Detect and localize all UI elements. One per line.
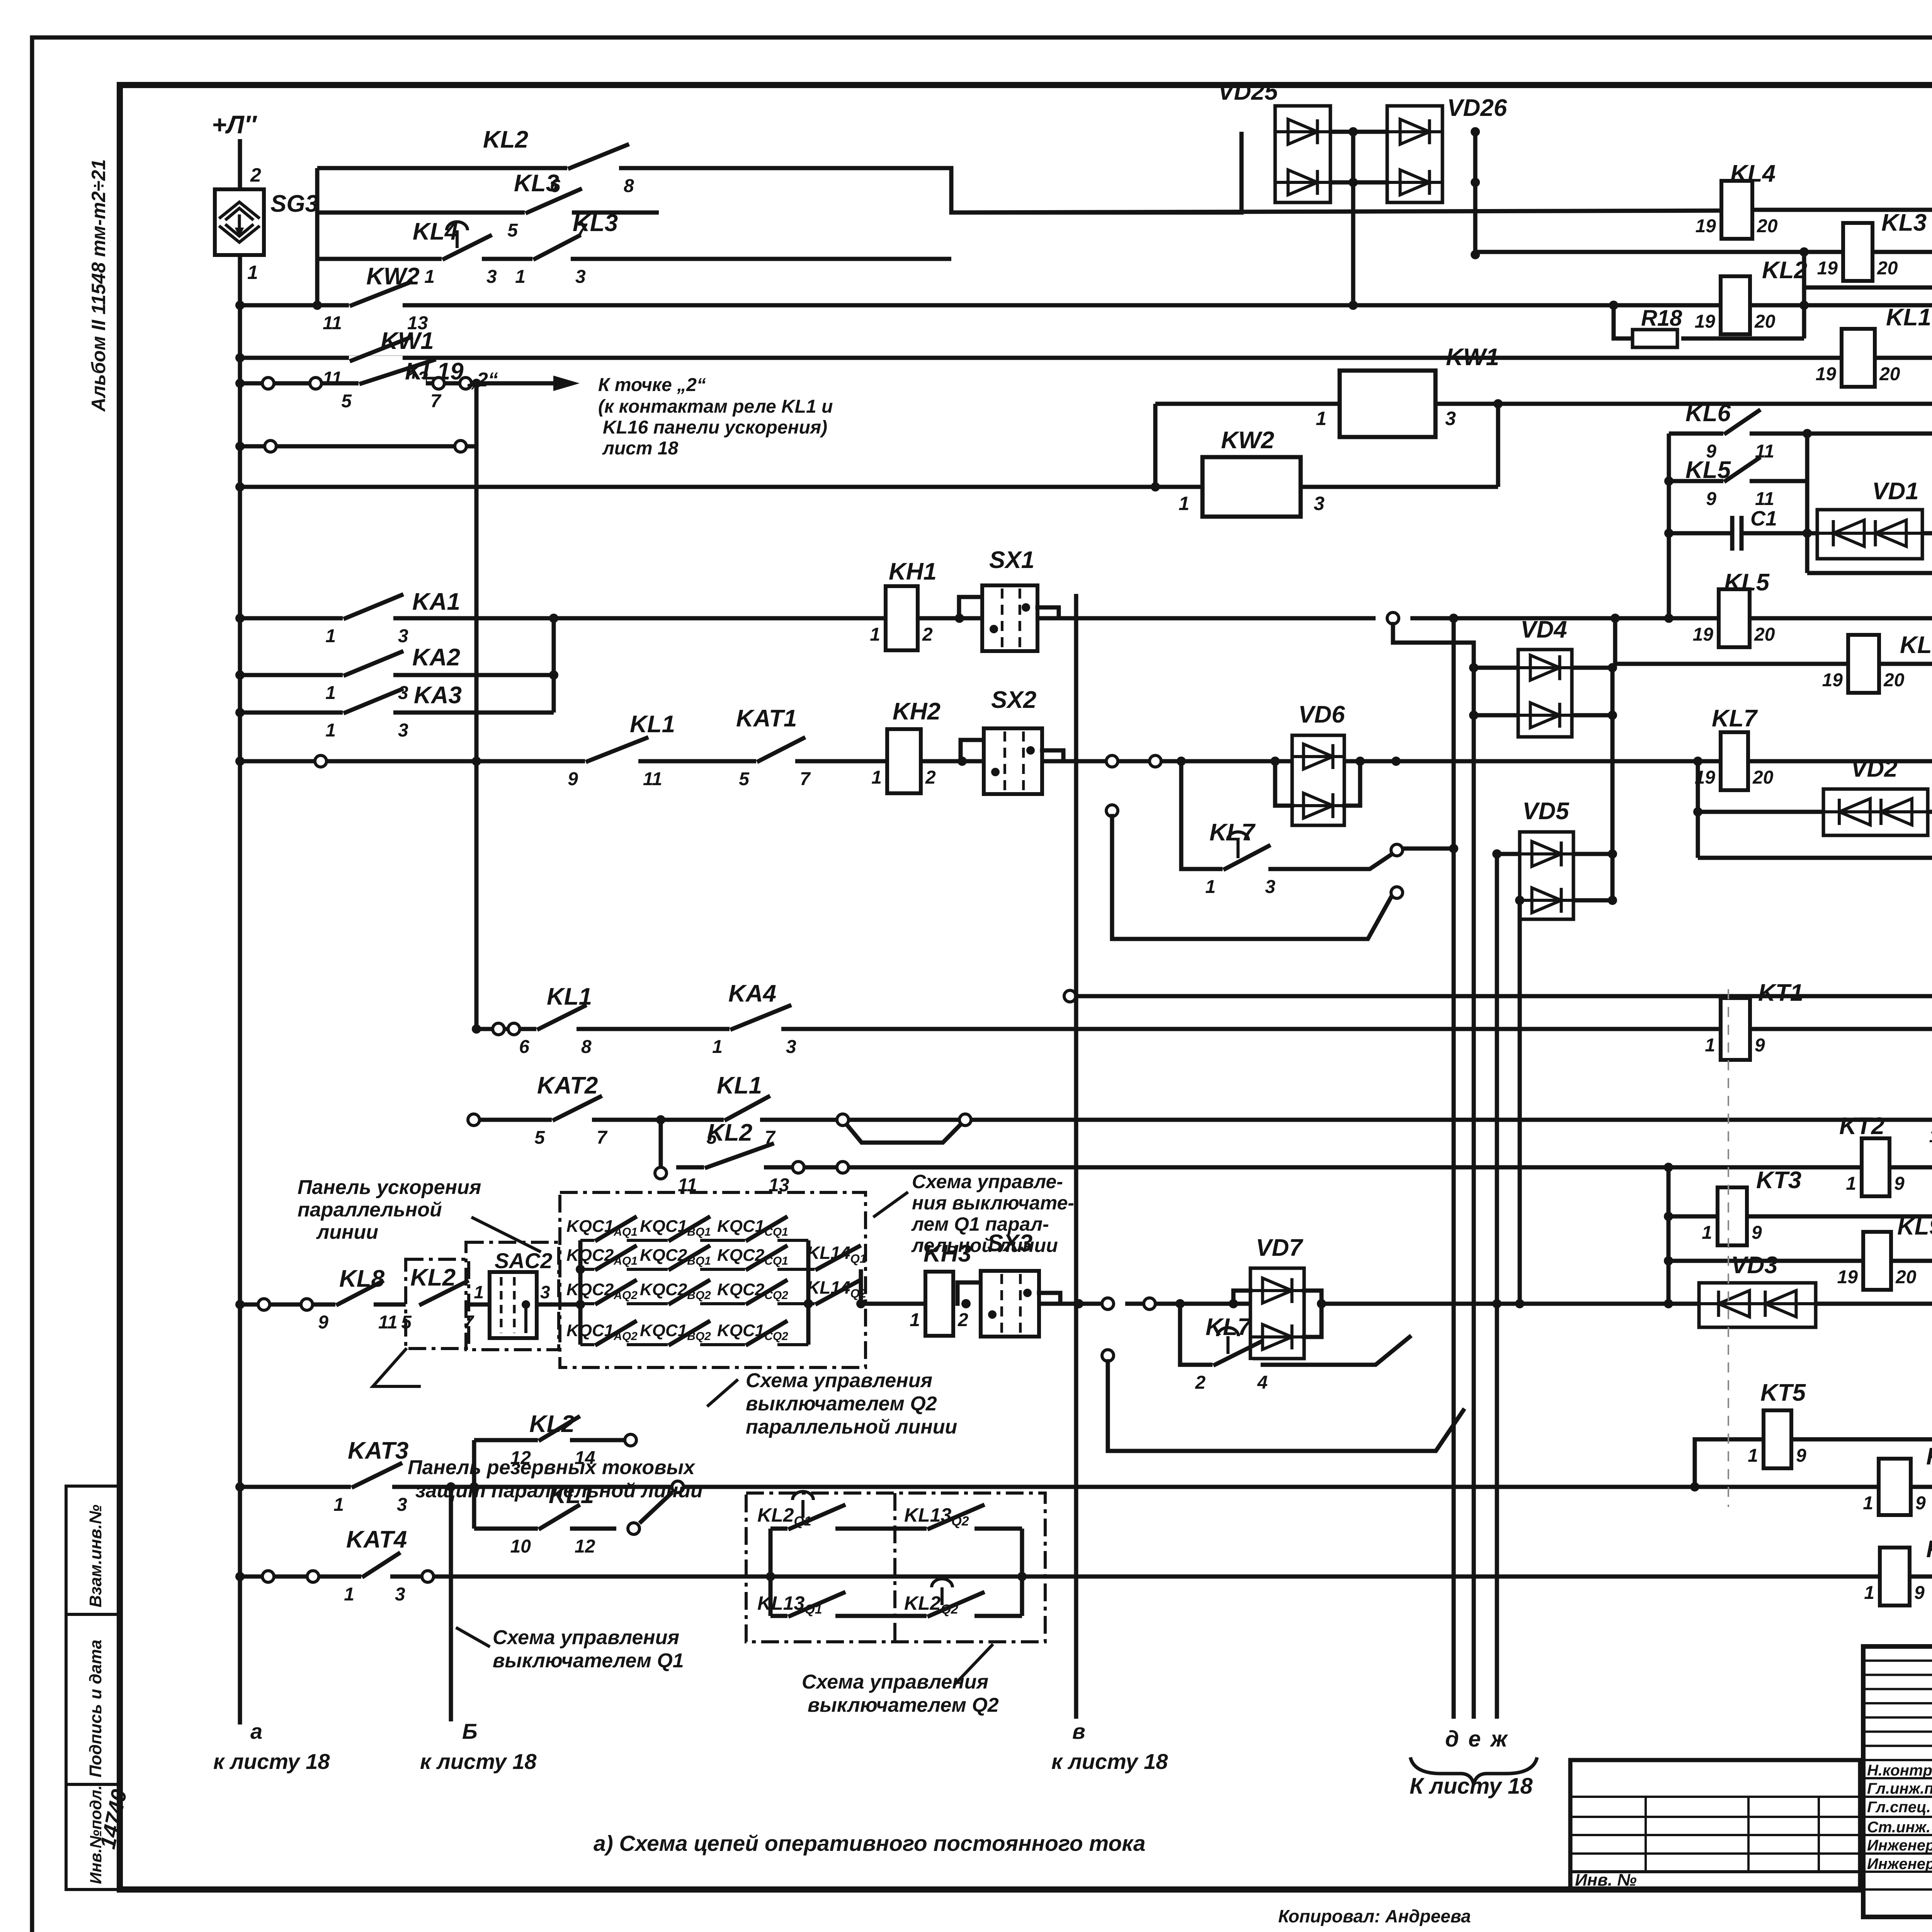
svg-text:20: 20 [1879,364,1900,384]
wire VD7 top [1233,1291,1250,1304]
contact KL1 10-12 [538,1524,570,1533]
vert 3502 [1351,132,1355,305]
svg-text:1: 1 [712,1037,723,1057]
svg-text:19: 19 [1817,258,1838,279]
dashdot SAC2 panel [466,1242,559,1350]
svg-text:11: 11 [378,1312,398,1333]
wire VD5 out [1573,852,1612,856]
svg-text:д: д [1445,1726,1459,1752]
svg-text:9: 9 [1796,1446,1806,1466]
svg-text:Схема управле-: Схема управле- [912,1171,1063,1192]
svg-text:7: 7 [430,391,442,412]
wire VD2-R4 [1928,810,1932,814]
coil KT2 [1862,1138,1889,1196]
svg-text:защит параллельной линии: защит параллельной линии [415,1480,703,1502]
svg-text:KL7: KL7 [1209,819,1256,846]
svg-text:KL7: KL7 [1712,705,1758,732]
svg-text:8: 8 [581,1037,592,1057]
svg-text:VD5: VD5 [1522,798,1570,825]
svg-text:3: 3 [575,267,586,287]
svg-text:1: 1 [515,267,526,287]
svg-text:VD25: VD25 [1218,78,1279,105]
svg-text:20: 20 [1754,311,1776,332]
wire VD25 feed [1240,132,1244,213]
svg-text:Б: Б [462,1719,478,1743]
svg-text:Схема управления: Схема управления [493,1626,679,1649]
svg-text:5: 5 [739,769,750,789]
svg-text:KW2: KW2 [1221,427,1274,454]
wire VD5 in2 [1497,854,1497,854]
svg-text:KL1: KL1 [630,711,675,738]
junction KT5 [1690,1482,1699,1492]
VD4 [1518,650,1572,737]
svg-text:KL8: KL8 [339,1265,385,1292]
wire KT5 out [1791,1437,1932,1442]
svg-text:KL6: KL6 [1685,400,1731,427]
contact KL1 9-11 [585,757,638,766]
svg-text:11: 11 [1755,489,1774,509]
svg-text:3: 3 [398,626,408,646]
leader uskor [471,1217,541,1252]
vert 4318 low [1667,1167,1671,1304]
VD26 [1387,106,1442,202]
contact KAT2 [552,1115,592,1124]
svg-text:ния выключате-: ния выключате- [912,1192,1074,1214]
svg-text:KL2: KL2 [707,1119,752,1146]
coil KT1 [1721,998,1750,1060]
svg-text:лем Q1 парал-: лем Q1 парал- [911,1213,1049,1235]
vert 1710 [659,1120,663,1166]
Q branch verts [769,1529,773,1616]
svg-text:KA1: KA1 [412,588,460,615]
capacitor C1 [1730,516,1735,551]
svg-text:линии: линии [316,1221,378,1243]
svg-text:к листу 18: к листу 18 [213,1749,330,1774]
svg-text:VD4: VD4 [1520,616,1567,643]
svg-text:1: 1 [1846,1173,1856,1194]
contact KL8c [335,1300,374,1309]
coil KL9 [1863,1232,1891,1290]
wire VD5 in [1497,852,1520,856]
wire VD2 col [1696,761,1700,858]
contact KL1 6-8 [536,1024,577,1034]
svg-text:19: 19 [1929,1126,1932,1146]
svg-text:9: 9 [1755,1035,1765,1056]
wire VD7 loop [1233,1304,1250,1337]
wire R17 row [1804,286,1932,290]
KQC row3 [808,1302,815,1305]
svg-text:SG3: SG3 [270,190,318,217]
wire R15 row [1698,856,1932,860]
coil KL6 [1848,635,1879,693]
contact KA2 [343,670,393,680]
extension table [1570,1760,1860,1889]
vert 821 [315,168,320,305]
svg-text:3: 3 [486,267,497,287]
wire row KL8 [240,1303,406,1307]
wire row KL9 [1668,1259,1932,1263]
dashdot Q divider [893,1493,896,1642]
svg-text:KW1: KW1 [1446,344,1499,371]
term 817 1970 [315,755,327,767]
svg-text:KAT1: KAT1 [736,705,797,732]
svg-text:7: 7 [800,769,811,789]
svg-text:1: 1 [1864,1583,1874,1603]
term KAT2 [468,1114,480,1126]
col e [1472,643,1476,1719]
title block [1863,1646,1932,1917]
vert link e top [1393,624,1474,643]
svg-text:3: 3 [540,1282,550,1302]
wire row KW2coil [240,485,1202,489]
SAC2 sym [490,1272,537,1338]
wire Q bottom branch [770,1614,1022,1618]
svg-text:Панель ускорения: Панель ускорения [298,1176,481,1199]
wire KL7b out [1263,1337,1410,1365]
diag link [639,1492,672,1523]
svg-text:К листу 18: К листу 18 [1410,1774,1533,1799]
term jog [1391,844,1403,856]
wire KQC out [861,1302,925,1306]
col zh [1495,854,1499,1719]
vert 2990 [1153,404,1158,487]
svg-text:9: 9 [1894,1173,1905,1194]
KQC row1 [580,1239,808,1242]
wire KH1-SX1 [918,616,982,621]
svg-text:VD2: VD2 [1851,755,1898,782]
svg-text:KAT3: KAT3 [348,1437,408,1464]
svg-text:1: 1 [247,262,258,283]
wire row KL1-KAT1 [240,759,1932,764]
svg-text:+Л″: +Л″ [212,110,257,139]
svg-text:К точке „2“: К точке „2“ [598,375,706,395]
svg-text:к листу 18: к листу 18 [1051,1749,1168,1774]
contact KAT4 [361,1572,390,1581]
svg-text:5: 5 [507,220,518,241]
KQC verts [578,1240,583,1345]
term KL8 [258,1299,270,1310]
svg-text:8: 8 [624,176,634,196]
svg-text:KL3: KL3 [573,210,618,236]
svg-text:19: 19 [1837,1267,1858,1287]
wire jog 2898-3021 [843,1120,965,1143]
L loop [1108,1361,1463,1451]
VD1 [1817,510,1922,559]
svg-text:KL6: KL6 [1900,632,1932,658]
contact KL5 [1723,476,1750,486]
contact KL4 time [442,254,482,264]
wire VD2 row [1698,810,1823,814]
svg-text:1: 1 [1205,877,1216,897]
svg-text:1: 1 [344,1584,354,1605]
VD25 [1275,106,1330,202]
junction KL19 out [472,379,481,388]
wire row 2196 [1403,847,1454,851]
contact KL2 12-14 [538,1435,570,1445]
svg-text:KW1: KW1 [381,328,434,354]
SX1 [959,597,983,618]
coil KT4 [1879,1459,1911,1515]
VD7 [1250,1268,1304,1359]
svg-text:19: 19 [1696,216,1716,236]
svg-text:1: 1 [474,1282,484,1302]
svg-text:2: 2 [925,767,936,788]
svg-text:VD26: VD26 [1447,95,1507,121]
coil KT3 [1718,1187,1747,1245]
contact KL2 Q2 [927,1611,975,1621]
fold line artifact [1728,989,1729,1507]
wire VD6 loop [1275,761,1292,806]
contact KL1 5-7 [724,1115,760,1124]
svg-text:KL1: KL1 [1886,304,1931,331]
svg-text:12: 12 [575,1536,595,1557]
wire KH3-SX3 [961,1299,971,1308]
svg-text:Взам.инв.№: Взам.инв.№ [86,1505,105,1607]
VD3 [1699,1283,1816,1327]
vert 3877 [1496,404,1500,487]
svg-text:KW2: KW2 [366,263,420,290]
wire SX2 out [1042,759,1105,764]
svg-text:а: а [250,1719,262,1743]
svg-text:KL9: KL9 [1897,1213,1932,1240]
left bus tail a [238,1579,242,1725]
wire row KL1 10-12 [474,1527,616,1531]
svg-text:7: 7 [597,1128,608,1148]
wire KL5 contact row [1669,479,1724,483]
svg-text:лельной линии: лельной линии [911,1235,1058,1256]
svg-text:Схема управления: Схема управления [802,1671,988,1693]
wire row KAT4 [240,1575,1932,1579]
wire row KW2 [240,303,1932,308]
svg-text:3: 3 [398,720,408,741]
svg-text:9: 9 [1915,1493,1926,1514]
contact KL7 1-3 [1181,761,1223,869]
svg-text:VD3: VD3 [1731,1252,1778,1279]
svg-text:KT2: KT2 [1839,1113,1884,1139]
wire SAC2 out [537,1303,580,1307]
contact KL19 [359,379,426,388]
svg-text:Подпись и дата: Подпись и дата [86,1639,105,1777]
svg-text:1: 1 [1705,1035,1715,1056]
term 2987 [1150,755,1161,767]
svg-text:5: 5 [341,391,352,412]
svg-text:VD1: VD1 [1872,478,1919,505]
coil KL7r [1721,732,1748,790]
vert 1233 [474,383,479,1029]
terminal circles KL19b [433,378,444,389]
svg-text:3: 3 [398,683,408,703]
svg-text:KL7: KL7 [1206,1314,1252,1340]
svg-text:1: 1 [910,1310,920,1330]
contact KL2 Q1 [787,1524,835,1533]
SX2 [961,740,985,761]
svg-text:Инв. №: Инв. № [1575,1871,1637,1889]
svg-text:9: 9 [1914,1583,1925,1603]
VD5 [1520,832,1573,919]
junction dots row790 [1609,301,1618,310]
wire row R3 [1070,994,1932,998]
left margin column boxes [66,1486,120,1614]
svg-text:1: 1 [1179,493,1189,514]
term 2066 [793,1162,804,1173]
contact KW1 [349,356,403,365]
contact KAT3 [351,1482,392,1492]
wire row KL2 6-8 [317,166,951,170]
svg-text:VD6: VD6 [1298,701,1345,728]
wire row KA1 [240,616,886,621]
svg-text:KA3: KA3 [414,682,462,709]
wire KW1 out [1435,402,1932,406]
brace dezh [1410,1757,1537,1784]
wire corner [951,168,1242,213]
contact KW2 [349,301,403,310]
svg-text:KL4: KL4 [1730,160,1776,187]
svg-text:Панель резервных токовых: Панель резервных токовых [408,1456,696,1479]
svg-text:Ст.инж.: Ст.инж. [1867,1819,1930,1836]
svg-text:1: 1 [424,267,435,287]
wire row KA2 [240,673,554,677]
svg-text:1: 1 [325,683,336,703]
wire 3374 to col [1321,1302,1668,1306]
svg-text:KT5: KT5 [1760,1379,1806,1406]
VD2 [1823,789,1928,835]
contact KL7 2-4 [1180,1304,1213,1365]
junction B [446,1482,456,1492]
KQC row3b [580,1302,808,1305]
svg-text:1: 1 [870,624,880,645]
vert B [449,1487,453,1721]
coil KH3 [925,1272,953,1336]
col v [1074,594,1078,1719]
contact KL2 6-8 [567,163,619,173]
svg-text:KL2: KL2 [529,1411,575,1437]
coil KL1 [1842,329,1875,387]
wire mid link [1330,130,1387,134]
dashdot KL2 panel [406,1259,469,1349]
svg-text:R18: R18 [1641,306,1682,331]
svg-text:KL16 панели ускорения): KL16 панели ускорения) [603,417,827,438]
vert 1227 [472,1440,476,1529]
svg-text:Инженер: Инженер [1867,1837,1932,1854]
svg-text:20: 20 [1895,1267,1917,1287]
wire R18 loop [1614,305,1629,338]
leader q1par [873,1192,908,1217]
svg-text:1: 1 [325,720,336,741]
svg-text:19: 19 [1822,670,1843,690]
wire C1-VD1 [1742,531,1817,536]
contact KL13 Q1 [787,1611,835,1621]
wire KT5 row [1695,1439,1764,1487]
svg-text:KL2: KL2 [1762,257,1807,284]
term 2663 [493,1023,504,1035]
svg-text:20: 20 [1883,670,1905,690]
contact KL2 5-7 [418,1300,459,1309]
wire row KL19 [240,381,498,386]
wire seg 2990 [1130,761,1932,762]
svg-text:2: 2 [957,1310,968,1330]
svg-text:выключателем Q2: выключателем Q2 [746,1393,937,1415]
svg-text:выключателем Q1: выключателем Q1 [493,1650,684,1672]
left bus [238,255,242,1579]
wire stub 1155 [240,444,476,449]
svg-text:KL1: KL1 [717,1072,762,1099]
svg-text:KL3: KL3 [1881,209,1927,236]
KQC row2 [580,1268,808,1271]
contact KL13 Q2 [927,1524,975,1533]
svg-text:10: 10 [510,1536,531,1557]
KQC row4 [580,1343,808,1346]
wire SX1 out [1037,616,1376,621]
svg-text:20: 20 [1752,767,1774,788]
svg-text:C1: C1 [1750,507,1777,530]
svg-text:KL3: KL3 [514,170,559,197]
svg-text:KL4: KL4 [413,218,458,245]
wire KL6 out [1750,432,1807,436]
wire KL5 out [1750,479,1807,483]
svg-text:3: 3 [1445,408,1456,429]
svg-text:19: 19 [1693,624,1714,645]
wire C1 row [1669,531,1732,536]
wire row KL2 12-14 [474,1438,631,1442]
wire +L drop [238,139,242,189]
svg-text:к листу 18: к листу 18 [420,1749,537,1774]
coil KL2 [1721,276,1750,334]
svg-text:SAC2: SAC2 [495,1248,552,1273]
contact KAT1 [756,757,795,766]
wire R1 row [1807,571,1932,575]
svg-text:KL1: KL1 [547,983,592,1010]
svg-text:20: 20 [1754,624,1775,645]
svg-text:параллельной: параллельной [298,1199,442,1221]
svg-text:2: 2 [922,624,933,645]
svg-text:(к контактам реле KL1 и: (к контактам реле KL1 и [598,396,833,417]
svg-text:9: 9 [318,1312,328,1333]
arrow to point g [498,381,556,386]
wire row550 right [1752,208,1932,212]
svg-text:1: 1 [333,1495,344,1515]
VD6 [1292,735,1344,825]
svg-text:11: 11 [643,769,662,789]
junction Q1 [766,1572,775,1581]
svg-text:KT3: KT3 [1756,1167,1801,1194]
svg-text:в: в [1072,1719,1085,1743]
svg-text:Альбом II 11548 тм-т2÷21: Альбом II 11548 тм-т2÷21 [88,159,109,412]
svg-text:9: 9 [1706,489,1716,509]
wire VD1 out [1922,531,1932,536]
wire row KAT2 [474,1118,1932,1122]
svg-text:3: 3 [786,1037,796,1057]
junction 1233 cross [472,757,481,766]
coil KW1 big [1340,371,1435,437]
wire row 1600 right [1410,616,1932,621]
svg-text:KL5: KL5 [1685,457,1731,483]
wire row KA4 [476,1027,1932,1031]
svg-text:Н.контр.: Н.контр. [1867,1762,1932,1779]
wire KL4coil row [951,211,1721,213]
wire row KT3 [1668,1214,1932,1219]
svg-text:2: 2 [1195,1372,1206,1393]
coil KL3 [1843,223,1872,281]
svg-text:Копировал: Андреева: Копировал: Андреева [1278,1906,1471,1926]
col 3933 [1518,900,1522,1304]
wire Q top branch [770,1527,1022,1531]
term circles 1600 [1387,612,1399,624]
svg-text:19: 19 [1695,311,1716,332]
contact KA4 [730,1024,781,1034]
wire KW2 out [1301,485,1498,489]
vert KA merge [552,618,556,713]
vert 4669 [1802,252,1806,338]
